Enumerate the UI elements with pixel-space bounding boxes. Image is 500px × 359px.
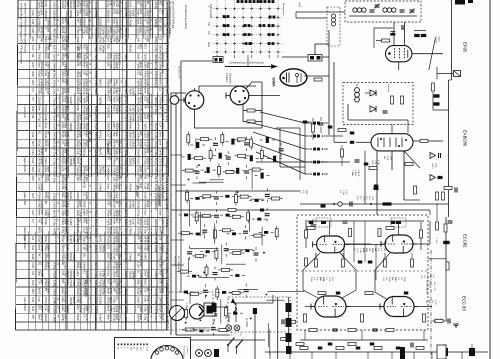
switch contact bbox=[268, 0, 275, 3]
svg-text:1,5kO: 1,5kO bbox=[85, 175, 88, 182]
capacitor C266 bbox=[370, 343, 375, 346]
svg-text:Erie2: Erie2 bbox=[144, 279, 147, 285]
amp bottom bus bbox=[300, 339, 428, 341]
svg-text:Ratiodet.: Ratiodet. bbox=[387, 84, 390, 93]
svg-text:Lytal 1nFdk: Lytal 1nFdk bbox=[23, 105, 26, 118]
svg-text:50u/6: 50u/6 bbox=[154, 158, 158, 165]
svg-text:5-25p: 5-25p bbox=[109, 288, 112, 295]
svg-text:3,3kO: 3,3kO bbox=[124, 140, 128, 148]
resistor R62 bbox=[215, 250, 218, 258]
resistor R274 bbox=[296, 343, 304, 346]
svg-text:27kOm: 27kOm bbox=[99, 288, 102, 296]
svg-text:50u/6: 50u/6 bbox=[146, 183, 149, 190]
resistor R84 bbox=[225, 308, 228, 316]
AC source squiggle bbox=[234, 308, 237, 315]
dashed box NF amplifier bbox=[297, 215, 428, 330]
capacitor C246 bbox=[336, 292, 341, 295]
svg-text:5-25p: 5-25p bbox=[139, 105, 142, 112]
svg-text:500pF: 500pF bbox=[146, 157, 149, 165]
svg-text:4700p: 4700p bbox=[154, 288, 158, 296]
svg-text:5-25p: 5-25p bbox=[101, 271, 104, 278]
svg-text:1M: 1M bbox=[383, 248, 385, 251]
phono input jack bbox=[170, 96, 179, 105]
svg-text:1nFdk: 1nFdk bbox=[44, 114, 47, 122]
svg-text:70pFk: 70pFk bbox=[94, 123, 98, 131]
resistor R6 bbox=[187, 135, 190, 143]
capacitor C211 bbox=[303, 121, 308, 124]
svg-text:5-25p: 5-25p bbox=[146, 36, 149, 43]
resistor R22 bbox=[185, 169, 193, 172]
capacitor C232 bbox=[260, 209, 264, 212]
svg-text:4700p: 4700p bbox=[85, 314, 88, 322]
svg-text:1MOhm: 1MOhm bbox=[69, 123, 72, 132]
svg-text:70pFk: 70pFk bbox=[99, 279, 102, 287]
svg-text:500pF: 500pF bbox=[137, 157, 140, 165]
svg-text:5-25p: 5-25p bbox=[66, 131, 69, 138]
svg-text:5-25p: 5-25p bbox=[44, 1, 47, 8]
svg-text:27kOm: 27kOm bbox=[129, 253, 132, 261]
svg-text:R52: R52 bbox=[40, 279, 43, 284]
resistor R76 bbox=[216, 289, 219, 297]
svg-text:papie: papie bbox=[79, 131, 82, 138]
svg-text:5-25p: 5-25p bbox=[85, 53, 88, 60]
svg-text:27kOm: 27kOm bbox=[139, 79, 142, 87]
svg-text:C18: C18 bbox=[31, 280, 35, 286]
svg-text:0,5MO: 0,5MO bbox=[47, 210, 50, 218]
wire inner rail x448 bbox=[448, 80, 450, 217]
svg-text:220kO: 220kO bbox=[161, 88, 164, 95]
coil L27 bbox=[236, 168, 239, 174]
svg-text:1MOhm: 1MOhm bbox=[40, 236, 43, 245]
svg-text:390Om: 390Om bbox=[66, 253, 69, 261]
svg-text:500pF: 500pF bbox=[38, 140, 41, 148]
resistor R257 bbox=[361, 314, 364, 322]
svg-text:kerko: kerko bbox=[38, 44, 41, 51]
resistor R32 bbox=[203, 195, 211, 198]
svg-text:Lytal: Lytal bbox=[47, 288, 50, 294]
ground bbox=[453, 324, 459, 327]
svg-text:220kO: 220kO bbox=[146, 131, 149, 138]
svg-text:27kOm: 27kOm bbox=[154, 106, 158, 116]
svg-text:Styro: Styro bbox=[47, 166, 50, 172]
svg-text:390Om: 390Om bbox=[154, 19, 158, 29]
svg-text:0,5MO: 0,5MO bbox=[64, 288, 67, 296]
resistor R250 bbox=[411, 259, 414, 267]
coil L7 bbox=[196, 142, 199, 148]
svg-text:1MOhm: 1MOhm bbox=[165, 219, 169, 230]
tube ECC82 section a bbox=[313, 236, 349, 253]
capacitor C72 bbox=[235, 274, 239, 277]
resistor R82 bbox=[201, 310, 209, 313]
svg-text:85V: 85V bbox=[139, 347, 141, 351]
capacitor C245 bbox=[368, 261, 373, 264]
wire mains down bbox=[254, 314, 256, 359]
svg-text:5-25p: 5-25p bbox=[154, 132, 158, 140]
diagonal wire EF95 right bbox=[429, 38, 436, 71]
svg-text:Styro: Styro bbox=[107, 183, 110, 189]
capacitor C242 bbox=[309, 221, 314, 224]
svg-text:8uF/3: 8uF/3 bbox=[99, 79, 102, 86]
svg-text:8uF/3: 8uF/3 bbox=[165, 271, 169, 279]
capacitor C261 bbox=[356, 347, 361, 350]
svg-text:50u/6: 50u/6 bbox=[94, 88, 98, 95]
svg-text:390Om: 390Om bbox=[79, 157, 82, 165]
resistor R35 bbox=[234, 195, 237, 203]
resistor R25 bbox=[217, 166, 220, 174]
svg-text:10nFd: 10nFd bbox=[53, 53, 57, 61]
svg-text:10nFd: 10nFd bbox=[53, 123, 57, 131]
svg-text:390Om: 390Om bbox=[99, 27, 102, 35]
capacitor C38 bbox=[265, 194, 270, 196]
wire detector bottom bbox=[348, 119, 408, 121]
switch matrix cross ticks bbox=[216, 7, 280, 53]
svg-text:47kOm: 47kOm bbox=[107, 262, 110, 270]
svg-text:50u/6: 50u/6 bbox=[124, 175, 128, 182]
svg-text:10nFd: 10nFd bbox=[159, 297, 162, 305]
components on y204 rail bbox=[338, 202, 342, 206]
svg-text:NF-Teil: NF-Teil bbox=[88, 131, 92, 142]
svg-text:Styro: Styro bbox=[144, 210, 147, 216]
svg-text:12kOm: 12kOm bbox=[129, 10, 132, 18]
svg-text:5-25p: 5-25p bbox=[66, 53, 69, 60]
resistor R30 bbox=[186, 192, 189, 200]
svg-text:5-25p: 5-25p bbox=[85, 114, 88, 121]
capacitor C81 bbox=[195, 314, 199, 317]
svg-text:R41: R41 bbox=[79, 9, 82, 14]
svg-text:70pFk: 70pFk bbox=[40, 1, 43, 9]
svg-text:70pFk: 70pFk bbox=[53, 114, 57, 122]
DIN socket Bu1 bbox=[185, 91, 204, 110]
svg-text:10nFd: 10nFd bbox=[109, 314, 112, 322]
pushbutton switch matrix S1 grid bbox=[212, 0, 283, 55]
resistor R251 bbox=[309, 329, 317, 332]
wire y162 bbox=[256, 161, 350, 163]
vertical wire x262 bbox=[261, 82, 263, 128]
top right corner blob bbox=[455, 0, 465, 5]
svg-text:C6: C6 bbox=[31, 315, 35, 319]
svg-text:3,3kO: 3,3kO bbox=[131, 140, 134, 147]
svg-text:27kOm: 27kOm bbox=[85, 79, 88, 87]
resistor R208 bbox=[314, 78, 322, 81]
capacitor C34 bbox=[225, 195, 229, 198]
capacitor C57 bbox=[264, 231, 268, 234]
svg-text:2,2M: 2,2M bbox=[342, 190, 344, 195]
tube socket pinout box bbox=[115, 338, 191, 359]
svg-text:1nFdk: 1nFdk bbox=[161, 114, 164, 122]
svg-text:0,1uF: 0,1uF bbox=[72, 236, 75, 243]
capacitor C201 bbox=[370, 10, 375, 12]
svg-text:1M: 1M bbox=[368, 248, 370, 251]
capacitor C210 bbox=[383, 111, 388, 113]
resistor R203 bbox=[391, 96, 394, 104]
capacitor C213 bbox=[328, 126, 333, 129]
resistor R258 bbox=[423, 314, 426, 322]
svg-text:Aus: Aus bbox=[207, 42, 211, 47]
svg-text:500pF: 500pF bbox=[159, 305, 162, 313]
wire y258 bbox=[428, 258, 446, 260]
svg-text:8uF/3: 8uF/3 bbox=[131, 158, 134, 165]
svg-text:0,1uF: 0,1uF bbox=[129, 105, 132, 112]
resistor R273 bbox=[416, 347, 424, 350]
resistor R271 bbox=[336, 347, 344, 350]
capacitor C218 bbox=[374, 185, 379, 188]
capacitor C85 bbox=[233, 312, 237, 315]
resistor R52 bbox=[213, 230, 216, 238]
svg-text:4700p: 4700p bbox=[76, 244, 79, 252]
svg-text:Draht: Draht bbox=[85, 96, 88, 102]
capacitor C268 bbox=[282, 319, 284, 324]
svg-text:220kO: 220kO bbox=[115, 18, 118, 25]
coil L20 bbox=[250, 155, 253, 161]
svg-text:C31: C31 bbox=[31, 132, 35, 138]
svg-text:R15: R15 bbox=[31, 62, 35, 68]
svg-text:47kOm: 47kOm bbox=[139, 140, 142, 148]
svg-text:1MOhm: 1MOhm bbox=[131, 271, 134, 280]
svg-text:C40: C40 bbox=[38, 123, 41, 128]
svg-text:2200p: 2200p bbox=[40, 157, 43, 165]
svg-text:10nFd: 10nFd bbox=[99, 245, 102, 253]
svg-text:Lytal: Lytal bbox=[139, 70, 142, 76]
svg-text:10nFd: 10nFd bbox=[72, 253, 75, 261]
svg-text:150pF: 150pF bbox=[38, 166, 41, 174]
svg-text:C38: C38 bbox=[31, 19, 35, 25]
svg-text:220kO: 220kO bbox=[99, 297, 102, 304]
svg-text:70pFk: 70pFk bbox=[154, 80, 158, 88]
amp internal verticals bbox=[353, 221, 355, 262]
svg-text:1MOhm: 1MOhm bbox=[101, 44, 104, 53]
svg-text:1,5kO: 1,5kO bbox=[66, 201, 69, 208]
svg-text:Sikat: Sikat bbox=[38, 105, 41, 111]
detector coil T201 bbox=[355, 88, 360, 102]
svg-text:8uF/3: 8uF/3 bbox=[38, 288, 41, 295]
switch contact bbox=[245, 42, 252, 45]
svg-text:70pFk: 70pFk bbox=[144, 123, 147, 131]
svg-text:C24: C24 bbox=[40, 227, 43, 232]
svg-text:150pF: 150pF bbox=[76, 314, 79, 322]
svg-text:50u/6: 50u/6 bbox=[94, 167, 98, 174]
svg-text:Abstimmung: Abstimmung bbox=[282, 3, 285, 16]
resistor R89 bbox=[219, 329, 227, 332]
capacitor C61 bbox=[206, 250, 210, 253]
driver stage wires bbox=[344, 243, 371, 245]
svg-text:R41: R41 bbox=[31, 245, 35, 251]
wire bus vertical 3 lower bbox=[180, 128, 182, 292]
svg-text:150pF: 150pF bbox=[99, 314, 102, 322]
svg-text:Draht: Draht bbox=[47, 262, 50, 268]
svg-text:1,5kO: 1,5kO bbox=[94, 140, 98, 148]
svg-text:150pF: 150pF bbox=[154, 227, 158, 235]
svg-text:WIMA4: WIMA4 bbox=[161, 270, 164, 279]
svg-text:0,1uF: 0,1uF bbox=[129, 1, 132, 8]
capacitor C43 bbox=[214, 215, 219, 217]
svg-text:1nFdk: 1nFdk bbox=[85, 192, 88, 200]
resistor R29 bbox=[252, 168, 260, 171]
svg-text:Lytal: Lytal bbox=[159, 140, 162, 146]
capacitor C50 bbox=[196, 233, 200, 236]
svg-text:4700p: 4700p bbox=[44, 297, 47, 305]
svg-text:3,3kO: 3,3kO bbox=[69, 236, 72, 243]
resistor R249 bbox=[384, 259, 387, 267]
svg-text:C40: C40 bbox=[118, 88, 121, 93]
svg-text:12kOm: 12kOm bbox=[83, 262, 86, 270]
svg-text:0,1uF: 0,1uF bbox=[129, 140, 132, 147]
resistor R4 bbox=[250, 139, 253, 147]
resistor R302 bbox=[247, 120, 255, 123]
svg-text:R33: R33 bbox=[107, 244, 110, 249]
svg-text:220kO: 220kO bbox=[99, 18, 102, 25]
svg-text:1nFdk: 1nFdk bbox=[159, 253, 162, 261]
capacitor C65 bbox=[245, 249, 249, 252]
resistor R247 bbox=[315, 259, 318, 267]
svg-text:3,3kO: 3,3kO bbox=[69, 218, 72, 225]
svg-text:0,5MO: 0,5MO bbox=[124, 314, 128, 323]
svg-text:Durol: Durol bbox=[66, 279, 69, 285]
svg-text:1MOhm: 1MOhm bbox=[85, 44, 88, 53]
switch contact bbox=[269, 16, 276, 19]
capacitor C51 bbox=[202, 230, 207, 232]
svg-text:70pFk: 70pFk bbox=[101, 36, 104, 44]
coil L2 bbox=[273, 156, 276, 162]
svg-text:R33: R33 bbox=[31, 106, 35, 112]
small dashed boxes above ECC82 bbox=[316, 218, 331, 227]
svg-text:2,2M: 2,2M bbox=[377, 160, 379, 165]
svg-text:10nFd: 10nFd bbox=[94, 297, 98, 305]
capacitor C83 bbox=[212, 314, 217, 316]
capacitor C5 bbox=[279, 149, 284, 151]
svg-text:220kO: 220kO bbox=[40, 201, 43, 208]
electrolytic C264 bbox=[469, 348, 475, 356]
resistor R41 bbox=[195, 213, 198, 221]
svg-text:Gegenkopplung: Gegenkopplung bbox=[426, 280, 428, 296]
capacitor C215 bbox=[350, 141, 355, 144]
svg-text:390Om: 390Om bbox=[79, 149, 82, 157]
svg-text:8uF/3: 8uF/3 bbox=[101, 166, 104, 173]
svg-text:2200p: 2200p bbox=[154, 1, 158, 9]
svg-text:150pF: 150pF bbox=[124, 271, 128, 279]
svg-text:C55: C55 bbox=[83, 183, 86, 188]
svg-text:2200p: 2200p bbox=[139, 96, 142, 104]
resistor R69 bbox=[205, 267, 208, 275]
svg-text:500pF: 500pF bbox=[94, 210, 98, 218]
svg-text:NF-Ausgang: NF-Ausgang bbox=[84, 280, 88, 297]
svg-text:papie 1,5kO: papie 1,5kO bbox=[23, 192, 26, 205]
svg-text:500pF: 500pF bbox=[47, 88, 50, 96]
capacitor C59 bbox=[187, 252, 192, 254]
svg-text:4700p: 4700p bbox=[94, 271, 98, 279]
svg-text:5-25p: 5-25p bbox=[53, 175, 57, 183]
svg-text:R21: R21 bbox=[139, 44, 142, 49]
svg-text:390Om: 390Om bbox=[66, 166, 69, 174]
svg-text:150pF: 150pF bbox=[85, 140, 88, 148]
svg-text:C31: C31 bbox=[79, 27, 82, 32]
svg-text:5-25p: 5-25p bbox=[109, 279, 112, 286]
svg-text:Styro: Styro bbox=[107, 175, 110, 181]
svg-text:47kOm: 47kOm bbox=[146, 140, 149, 148]
capacitor C243b bbox=[396, 221, 401, 224]
resistor R80 bbox=[185, 309, 188, 317]
wire chain right side down bbox=[429, 210, 431, 215]
wire long vertical x334 bbox=[333, 62, 335, 130]
svg-text:1nFdk: 1nFdk bbox=[94, 149, 98, 157]
capacitor C224 bbox=[438, 176, 443, 179]
svg-text:WIMA4: WIMA4 bbox=[83, 18, 86, 27]
capacitor C208 bbox=[421, 34, 427, 37]
capacitor C216 bbox=[355, 160, 360, 162]
svg-text:R33: R33 bbox=[159, 36, 162, 41]
resistor R211 bbox=[341, 149, 344, 157]
svg-text:220kO: 220kO bbox=[101, 279, 104, 286]
wires top row amp bbox=[305, 220, 424, 222]
svg-text:1,5kO: 1,5kO bbox=[99, 44, 102, 51]
svg-text:50u/6: 50u/6 bbox=[137, 53, 140, 60]
capacitor C33 bbox=[214, 197, 219, 199]
resistor R10 bbox=[221, 135, 224, 143]
svg-text:C24: C24 bbox=[66, 70, 69, 75]
svg-text:1MOhm: 1MOhm bbox=[109, 305, 112, 314]
svg-text:R41: R41 bbox=[146, 149, 149, 154]
svg-text:50u/6: 50u/6 bbox=[69, 192, 72, 199]
svg-text:0,1uF: 0,1uF bbox=[124, 10, 128, 17]
resistor R248 bbox=[342, 259, 345, 267]
wire bus vertical 2 bbox=[175, 93, 177, 335]
svg-text:TA: TA bbox=[207, 31, 211, 35]
svg-text:8uF/3: 8uF/3 bbox=[72, 158, 75, 165]
svg-text:4700p: 4700p bbox=[66, 227, 69, 235]
svg-text:Tonband: Tonband bbox=[225, 73, 228, 83]
svg-text:220kO: 220kO bbox=[99, 166, 102, 173]
resistor R263 bbox=[435, 320, 443, 323]
svg-text:Sikat: Sikat bbox=[115, 131, 118, 137]
svg-text:(abgl.): (abgl.) bbox=[438, 36, 440, 42]
capacitor C48 bbox=[265, 214, 270, 216]
svg-text:27kOm: 27kOm bbox=[79, 210, 82, 218]
svg-text:5-25p: 5-25p bbox=[53, 219, 57, 227]
svg-text:1nFdk: 1nFdk bbox=[154, 245, 158, 253]
parts table cell entries bbox=[23, 1, 169, 324]
wire x446 segment bbox=[445, 217, 447, 270]
svg-text:ZF-Teile: ZF-Teile bbox=[135, 184, 139, 197]
svg-text:27kOm: 27kOm bbox=[109, 36, 112, 44]
svg-text:3,3kO: 3,3kO bbox=[124, 114, 128, 122]
resistor R256 bbox=[304, 314, 307, 322]
capacitor C23 bbox=[195, 171, 200, 173]
svg-text:3,3kO: 3,3kO bbox=[64, 183, 67, 190]
svg-text:500pF: 500pF bbox=[137, 297, 140, 305]
svg-text:8uF/3: 8uF/3 bbox=[159, 79, 162, 86]
svg-text:1MOhm: 1MOhm bbox=[40, 79, 43, 88]
svg-text:Sikat: Sikat bbox=[115, 79, 118, 85]
svg-text:1nFdk: 1nFdk bbox=[146, 236, 149, 244]
svg-text:R21: R21 bbox=[31, 36, 35, 42]
svg-text:220kO: 220kO bbox=[85, 123, 88, 130]
svg-text:C18: C18 bbox=[109, 1, 112, 6]
svg-text:3,3kO: 3,3kO bbox=[94, 314, 98, 322]
resistor R242 bbox=[305, 230, 308, 238]
svg-text:0,5MO: 0,5MO bbox=[165, 201, 169, 210]
svg-text:Lytal: Lytal bbox=[161, 62, 164, 68]
svg-text:27kOm: 27kOm bbox=[129, 18, 132, 26]
svg-text:3,3kO: 3,3kO bbox=[124, 158, 128, 166]
switch contact bbox=[268, 33, 275, 36]
svg-text:70pFk: 70pFk bbox=[47, 79, 50, 87]
wire long horizontal y204 bbox=[300, 203, 449, 205]
svg-text:C44: C44 bbox=[31, 263, 35, 269]
svg-text:12kOm: 12kOm bbox=[109, 253, 112, 261]
svg-text:8uF/3: 8uF/3 bbox=[131, 131, 134, 138]
fuse black rect bbox=[253, 308, 257, 314]
svg-text:1nFdk: 1nFdk bbox=[94, 62, 98, 70]
svg-text:1MOhm: 1MOhm bbox=[99, 97, 102, 106]
